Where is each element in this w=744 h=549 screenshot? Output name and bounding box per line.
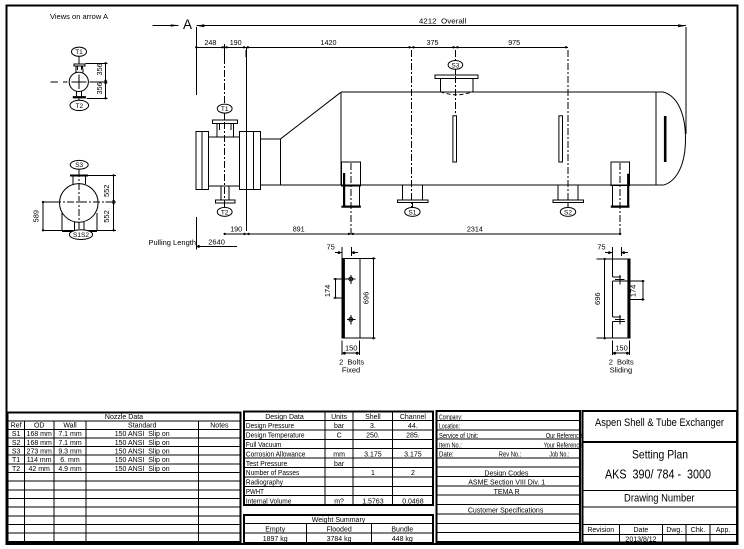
node T1 label (72, 47, 87, 56)
dimension 356/356 line (105, 63, 107, 98)
svg-text:552: 552 (102, 210, 111, 223)
svg-text:250.: 250. (366, 433, 380, 440)
svg-text:150 ANSI Slip on: 150 ANSI Slip on (115, 449, 170, 456)
nozzle T2 (216, 186, 236, 208)
dimension 190/891/2314 (224, 225, 622, 235)
svg-text:Date:: Date: (439, 451, 454, 458)
shell small cylinder (261, 139, 281, 185)
svg-text:Channel: Channel (400, 414, 427, 421)
svg-text:S1S2: S1S2 (73, 232, 89, 239)
nozzle neck T2 bottom (77, 91, 82, 96)
dimension 150 fixed (342, 341, 359, 355)
svg-text:Company:: Company: (439, 414, 462, 421)
shell cylinder (341, 92, 663, 185)
nozzle neck T1 top view (76, 66, 83, 73)
svg-text:Drawing Number: Drawing Number (624, 492, 695, 504)
saddle base plate sliding (612, 259, 630, 338)
svg-text:3.175: 3.175 (404, 451, 422, 458)
centerline T1/T2 (224, 44, 226, 207)
node S1 label (405, 207, 420, 216)
svg-text:168 mm: 168 mm (27, 431, 52, 438)
svg-text:S3: S3 (451, 62, 459, 69)
svg-text:42 mm: 42 mm (28, 466, 50, 473)
svg-text:Corrosion Allowance: Corrosion Allowance (246, 451, 306, 458)
centerline vertical large view (78, 170, 80, 232)
slot hole 2 sliding (612, 315, 625, 324)
svg-text:C: C (337, 433, 342, 440)
svg-text:Service of Unit:: Service of Unit: (439, 433, 478, 440)
svg-text:Bundle: Bundle (391, 526, 413, 533)
centerline horizontal shell end view (54, 201, 106, 203)
flange T1 top view (74, 64, 85, 66)
centerline sliding saddle (619, 163, 621, 234)
svg-text:Job No.:: Job No.: (549, 451, 569, 458)
svg-text:2: 2 (411, 470, 415, 477)
svg-text:T2: T2 (76, 103, 84, 110)
node T2 label (70, 100, 89, 110)
svg-text:T1: T1 (12, 457, 20, 464)
svg-text:7.1 mm: 7.1 mm (58, 431, 82, 438)
svg-text:248: 248 (204, 38, 216, 47)
svg-text:356: 356 (95, 82, 104, 95)
svg-text:696: 696 (593, 292, 602, 305)
centerline S1 (411, 50, 413, 207)
svg-text:174: 174 (629, 285, 638, 298)
nozzle neck S1S2 end view (75, 222, 84, 231)
svg-text:44.: 44. (408, 423, 418, 430)
dimension 150 sliding (612, 341, 629, 355)
svg-text:S1: S1 (408, 209, 416, 216)
svg-text:150 ANSI Slip on: 150 ANSI Slip on (115, 457, 170, 464)
svg-text:75: 75 (597, 242, 605, 251)
svg-text:168 mm: 168 mm (27, 440, 52, 447)
svg-text:mm: mm (333, 451, 345, 458)
dimension 4212 Overall (196, 17, 686, 134)
svg-text:m?: m? (334, 498, 344, 505)
svg-text:150: 150 (615, 344, 628, 353)
node T1 label main (217, 104, 232, 113)
flange T2 filled (73, 96, 86, 98)
svg-text:4212 Overall: 4212 Overall (419, 17, 467, 26)
dimension chain 248/190/1420/375/975 (195, 38, 568, 57)
svg-text:T2: T2 (221, 209, 229, 216)
svg-text:TEMA R: TEMA R (494, 489, 520, 496)
nozzle neck S3 end view (73, 177, 86, 185)
svg-text:75: 75 (327, 242, 335, 251)
svg-text:AKS 390/ 784 - 3000: AKS 390/ 784 - 3000 (605, 466, 711, 481)
svg-text:2013/8/12: 2013/8/12 (625, 537, 656, 544)
svg-text:150 ANSI Slip on: 150 ANSI Slip on (115, 466, 170, 473)
svg-text:356: 356 (95, 63, 104, 76)
svg-text:Units: Units (331, 414, 347, 421)
channel/shell flange pair (240, 131, 247, 189)
svg-text:Design Pressure: Design Pressure (246, 423, 294, 430)
svg-text:Ref: Ref (11, 423, 22, 430)
dimension 75 sliding (597, 242, 628, 259)
circle channel end view (69, 72, 88, 91)
bolt hole 2 fixed (347, 315, 355, 324)
svg-text:375: 375 (427, 38, 439, 47)
svg-text:6. mm: 6. mm (60, 457, 80, 464)
node S3 label (70, 160, 88, 169)
wire T1 stub (78, 56, 80, 64)
baffle plate 2 (559, 116, 563, 162)
svg-text:150: 150 (345, 344, 358, 353)
svg-text:T1: T1 (221, 106, 229, 113)
wire S3 stub (78, 169, 80, 174)
svg-text:Nozzle Data: Nozzle Data (105, 414, 143, 421)
centerline S3 (455, 50, 457, 113)
dimension 75 fixed (327, 242, 358, 259)
svg-text:Date: Date (634, 527, 649, 534)
svg-text:Rev No.:: Rev No.: (499, 451, 522, 458)
saddle fixed (341, 162, 361, 207)
channel cover flange (196, 131, 202, 189)
svg-text:1: 1 (371, 470, 375, 477)
svg-text:190: 190 (230, 38, 242, 47)
svg-text:2314: 2314 (467, 225, 483, 234)
svg-text:4.9 mm: 4.9 mm (58, 466, 82, 473)
svg-text:ASME Section VIII Div. 1: ASME Section VIII Div. 1 (468, 480, 545, 487)
svg-text:bar: bar (334, 423, 345, 430)
node S3 label main (448, 61, 463, 70)
svg-text:Fixed: Fixed (342, 365, 360, 374)
svg-text:448 kg: 448 kg (392, 536, 413, 543)
slot hole 1 sliding (612, 275, 625, 284)
svg-text:Our Reference:: Our Reference: (546, 433, 584, 440)
svg-text:891: 891 (293, 225, 305, 234)
svg-text:Shell: Shell (365, 414, 381, 421)
svg-text:Wall: Wall (63, 423, 77, 430)
cross mark center (72, 75, 87, 90)
svg-text:3.175: 3.175 (364, 451, 382, 458)
cone section (281, 92, 341, 139)
svg-text:Your Reference:: Your Reference: (544, 442, 584, 449)
svg-text:S2: S2 (12, 440, 21, 447)
svg-text:Design Temperature: Design Temperature (246, 433, 305, 440)
svg-text:3784 kg: 3784 kg (327, 536, 352, 543)
svg-text:7.1 mm: 7.1 mm (58, 440, 82, 447)
dimension 552/552 (88, 174, 116, 231)
bolt hole 1 fixed (347, 275, 355, 284)
dimension 696 fixed (360, 257, 376, 339)
svg-text:OD: OD (34, 423, 45, 430)
wire T2 stub (78, 98, 80, 101)
nozzle S1 (397, 185, 428, 207)
svg-text:Full Vacuum: Full Vacuum (246, 442, 282, 449)
channel barrel (208, 137, 239, 186)
centerline S2 (567, 50, 569, 207)
svg-text:696: 696 (362, 292, 371, 305)
svg-text:Flooded: Flooded (326, 526, 351, 533)
svg-text:S3: S3 (75, 162, 83, 169)
svg-text:PWHT: PWHT (246, 489, 265, 496)
svg-text:S2: S2 (564, 209, 572, 216)
shell end silhouette lines down (62, 213, 97, 230)
svg-text:9.3 mm: 9.3 mm (58, 449, 82, 456)
dimension 589 (31, 201, 62, 232)
svg-text:S3: S3 (12, 449, 21, 456)
svg-text:bar: bar (334, 461, 345, 468)
nozzle S3 (435, 69, 478, 94)
dimension 356/356 extension lines (86, 63, 108, 98)
centerline fixed saddle (350, 163, 352, 234)
dimension 174 sliding (625, 280, 645, 301)
svg-text:Customer Specifications: Customer Specifications (468, 508, 544, 515)
dimension 174 fixed (323, 278, 347, 299)
svg-text:Number of Passes: Number of Passes (246, 470, 300, 477)
svg-text:Setting Plan: Setting Plan (632, 447, 688, 461)
flange S3 end view (70, 175, 88, 177)
shell head tangent line (655, 92, 657, 185)
svg-text:0.0468: 0.0468 (402, 498, 424, 505)
svg-text:975: 975 (508, 38, 520, 47)
svg-text:Standard: Standard (128, 423, 157, 430)
flange S1S2 end view (62, 230, 97, 232)
svg-text:S1: S1 (12, 431, 21, 438)
svg-text:Weight Summary: Weight Summary (312, 517, 366, 524)
svg-text:Revision: Revision (587, 527, 614, 534)
svg-text:A: A (183, 17, 192, 32)
circle shell end view (60, 184, 99, 223)
baffle plate 1 (453, 116, 457, 162)
svg-text:114 mm: 114 mm (27, 457, 52, 464)
svg-text:Pulling Length: Pulling Length (148, 238, 196, 247)
dimension pulling length 2640 (148, 217, 237, 250)
svg-text:Empty: Empty (265, 526, 285, 533)
svg-text:3.: 3. (370, 423, 376, 430)
svg-text:273 mm: 273 mm (27, 449, 52, 456)
nozzle T1 (213, 114, 238, 138)
svg-text:Notes: Notes (210, 423, 229, 430)
svg-text:Views on arrow A: Views on arrow A (50, 12, 108, 21)
svg-text:Dwg.: Dwg. (666, 527, 682, 534)
head weld bar (664, 116, 667, 162)
svg-text:T1: T1 (75, 49, 83, 56)
svg-text:150 ANSI Slip on: 150 ANSI Slip on (115, 440, 170, 447)
svg-text:1897 kg: 1897 kg (263, 536, 288, 543)
svg-text:Design Data: Design Data (265, 414, 304, 421)
centerline horizontal small view (50, 81, 92, 83)
svg-text:Internal Volume: Internal Volume (246, 498, 292, 505)
svg-text:589: 589 (31, 210, 40, 223)
svg-text:1420: 1420 (321, 38, 337, 47)
svg-text:Chk.: Chk. (691, 527, 705, 534)
svg-text:Item No.:: Item No.: (439, 442, 462, 449)
svg-text:2640: 2640 (208, 237, 225, 246)
svg-text:Location:: Location: (439, 424, 460, 431)
node T2 label main (217, 207, 232, 216)
arrow A line (153, 24, 179, 26)
svg-text:Design Codes: Design Codes (484, 470, 528, 477)
extension line channel/shell junction (246, 47, 248, 231)
svg-text:174: 174 (323, 285, 332, 298)
svg-text:T2: T2 (12, 466, 20, 473)
svg-text:Test Pressure: Test Pressure (246, 461, 287, 468)
svg-text:Sliding: Sliding (610, 365, 633, 374)
svg-text:552: 552 (102, 185, 111, 198)
dimension 696 sliding (593, 258, 612, 340)
shell dished head (663, 92, 686, 185)
node S1S2 label (69, 230, 92, 240)
node S2 label (560, 207, 575, 216)
svg-text:150 ANSI Slip on: 150 ANSI Slip on (115, 431, 170, 438)
saddle base plate fixed (342, 258, 360, 338)
svg-text:App.: App. (716, 527, 730, 534)
nozzle S2 (553, 185, 584, 207)
svg-text:Radiography: Radiography (246, 480, 284, 487)
svg-text:1.5763: 1.5763 (362, 498, 384, 505)
saddle sliding (611, 162, 630, 206)
svg-text:190: 190 (230, 225, 242, 234)
svg-text:Aspen Shell & Tube Exchanger: Aspen Shell & Tube Exchanger (595, 417, 724, 429)
svg-text:285.: 285. (406, 433, 420, 440)
